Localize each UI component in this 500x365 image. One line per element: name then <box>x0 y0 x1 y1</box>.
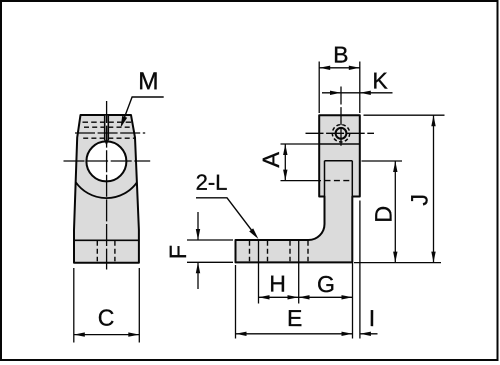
ext line boss right (I) <box>359 201 361 339</box>
arm right inner edge <box>351 161 353 197</box>
dim J extension lines <box>364 114 445 116</box>
ext line base right <box>352 263 354 339</box>
svg-text:J: J <box>406 194 432 206</box>
base top edge <box>74 239 139 241</box>
hidden base holes (dashed) <box>249 241 251 261</box>
svg-text:I: I <box>369 305 375 331</box>
slit V notch <box>105 140 109 144</box>
part centerline vertical <box>106 101 108 270</box>
dim B <box>319 67 360 69</box>
hole 1 centerline <box>258 241 260 304</box>
boss arc <box>76 182 137 198</box>
dim D <box>394 161 396 263</box>
dim A extension lines <box>281 143 320 145</box>
dim A <box>284 144 286 181</box>
svg-text:B: B <box>333 41 348 67</box>
svg-text:E: E <box>287 305 302 331</box>
arm top edge line <box>325 160 353 162</box>
dim H <box>259 296 299 298</box>
svg-text:A: A <box>258 152 284 168</box>
svg-text:H: H <box>269 270 286 296</box>
dim E <box>236 333 353 335</box>
dim F extension lines <box>187 239 233 241</box>
dim I <box>360 333 378 335</box>
dim C <box>74 334 140 336</box>
dim D extension line <box>362 160 403 162</box>
hidden screw hole (dashed) <box>83 121 105 123</box>
dim B extension lines <box>318 62 320 114</box>
clamp screw hole end view <box>336 128 347 139</box>
hidden mounting hole (dashed) <box>96 241 98 261</box>
leader M <box>122 97 164 125</box>
hidden bore line (dashed) <box>325 180 353 182</box>
svg-text:G: G <box>317 271 335 297</box>
screw centerline vertical <box>340 87 342 147</box>
screw axis centerline <box>75 132 145 134</box>
dim J <box>433 115 435 262</box>
svg-text:D: D <box>370 206 396 223</box>
ext line base left (E) <box>235 265 237 339</box>
dim G <box>299 296 353 298</box>
bore hole <box>86 141 126 181</box>
svg-text:K: K <box>372 67 388 93</box>
screw centerline horizontal <box>306 132 375 134</box>
dim K <box>322 92 393 94</box>
clamp slit <box>105 116 108 140</box>
svg-text:C: C <box>98 304 115 330</box>
boss bottom edge line <box>319 143 360 145</box>
leader 2-L <box>196 198 256 237</box>
dim F arrows outside <box>197 212 199 240</box>
bracket silhouette <box>236 115 360 262</box>
svg-text:2-L: 2-L <box>196 170 228 195</box>
hole 2 centerline <box>298 241 300 304</box>
dim C extension lines <box>73 268 75 343</box>
svg-text:F: F <box>165 245 191 259</box>
bore centerline horizontal <box>64 160 151 162</box>
svg-text:M: M <box>138 68 159 95</box>
arm left inner edge <box>324 161 326 197</box>
clamp body outline <box>74 115 139 263</box>
